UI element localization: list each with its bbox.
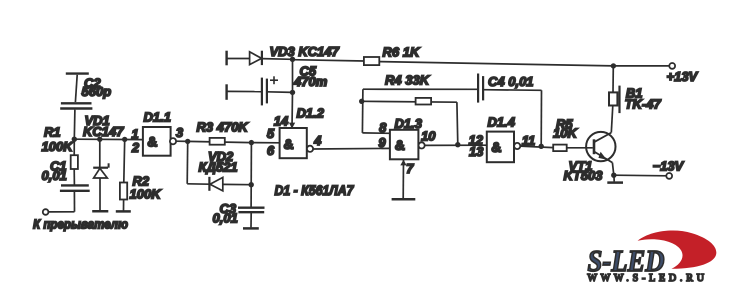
svg-text:R3 470K: R3 470K xyxy=(197,120,250,135)
svg-text:6: 6 xyxy=(267,143,275,158)
wire collector up to B1 xyxy=(611,106,613,133)
svg-text:&: & xyxy=(284,136,294,152)
svg-text:D1.2: D1.2 xyxy=(297,105,325,120)
svg-text:100K: 100K xyxy=(130,186,163,201)
node junction VD2/C3 xyxy=(249,182,254,187)
svg-text:100K: 100K xyxy=(42,139,75,154)
rail stub bar (VD3 anode) xyxy=(225,51,227,66)
node junction R2 xyxy=(122,137,127,142)
wire xyxy=(262,58,293,61)
transistor VT1 xyxy=(586,132,615,163)
wire R4 right vertical xyxy=(456,102,459,145)
svg-text:D1.1: D1.1 xyxy=(144,109,171,124)
terminal -13V xyxy=(666,173,672,179)
svg-text:&: & xyxy=(491,139,501,155)
logic gate D1.2 xyxy=(280,128,314,158)
node junction pin3 xyxy=(185,139,190,144)
svg-text:KT503: KT503 xyxy=(564,168,604,183)
resistor R6 xyxy=(364,57,379,65)
ground bar D1.3 pin7 xyxy=(392,198,416,201)
svg-text:TK-47: TK-47 xyxy=(625,96,662,111)
logic gate D1.4 xyxy=(487,132,521,163)
svg-text:2: 2 xyxy=(131,140,140,155)
capacitor C1 xyxy=(60,185,90,211)
svg-text:470m: 470m xyxy=(293,74,328,89)
svg-text:10: 10 xyxy=(421,129,436,144)
pin 7 arrowhead xyxy=(400,160,406,166)
wire R3 row xyxy=(188,141,252,142)
wire to ground bar xyxy=(613,175,615,181)
svg-text:R1: R1 xyxy=(44,125,61,140)
svg-text:−13V: −13V xyxy=(653,159,685,174)
svg-text:VD3 KC147: VD3 KC147 xyxy=(270,44,340,59)
zener diode VD1 xyxy=(93,139,108,210)
svg-text:1: 1 xyxy=(131,126,138,141)
svg-text:D1.4: D1.4 xyxy=(488,115,516,130)
resistor R1 xyxy=(71,139,78,184)
ground bar C3 xyxy=(243,227,259,230)
terminal +13V xyxy=(669,63,675,69)
capacitor C3 xyxy=(238,208,265,228)
svg-text:9: 9 xyxy=(378,135,386,150)
node junction R4 left xyxy=(359,99,364,104)
node junction VD1 xyxy=(97,137,102,142)
wire xyxy=(613,65,669,67)
capacitor C4 xyxy=(478,74,483,103)
svg-text:14: 14 xyxy=(274,113,289,128)
svg-text:KC147: KC147 xyxy=(83,124,124,139)
wire xyxy=(48,211,74,213)
svg-text:&: & xyxy=(147,134,157,150)
wire xyxy=(227,90,261,92)
capacitor C2 xyxy=(60,74,92,140)
wire D1.2 output to D1.3 pin 9 xyxy=(313,147,390,150)
wire xyxy=(227,58,250,60)
svg-text:R4 33K: R4 33K xyxy=(385,73,431,88)
wire pin 7 to ground xyxy=(402,159,404,198)
svg-text:13: 13 xyxy=(469,144,484,159)
svg-text:КД521: КД521 xyxy=(199,159,238,174)
node junction C5/pin14 xyxy=(290,90,295,95)
wire R4/C4 left vertical xyxy=(361,89,364,133)
wire D1.1 output xyxy=(176,140,188,142)
svg-text:&: & xyxy=(395,137,405,153)
svg-text:8: 8 xyxy=(379,120,387,135)
svg-text:D1.3: D1.3 xyxy=(395,116,423,131)
wire xyxy=(267,91,293,94)
wire emitter to -13V xyxy=(614,174,667,177)
svg-text:+13V: +13V xyxy=(667,69,699,84)
resistor R3 xyxy=(210,138,225,145)
wire C4 top row xyxy=(363,88,477,90)
logic gate D1.3 xyxy=(390,130,425,160)
svg-text:4: 4 xyxy=(313,133,322,148)
node junction R3/pins 5-6 xyxy=(249,140,254,145)
svg-text:5: 5 xyxy=(267,126,275,141)
wire D1.3 pin 8 xyxy=(362,132,390,134)
node junction R4 right / pin10 xyxy=(455,142,460,147)
node junction C4/pin11 xyxy=(539,144,544,149)
svg-text:R6 1K: R6 1K xyxy=(383,44,421,59)
resistor R2 xyxy=(120,139,127,210)
wire D1.4 output xyxy=(520,146,553,148)
terminal K preryvatelyu xyxy=(43,209,49,215)
component B1 (telephone capsule) xyxy=(609,66,620,113)
logo red swoosh xyxy=(638,231,717,269)
ground bar VD1 xyxy=(92,210,108,213)
node junction R1/C2 xyxy=(72,137,77,142)
wire xyxy=(379,62,613,66)
node junction emitter xyxy=(611,173,616,178)
diode VD2 loop xyxy=(187,141,251,191)
capacitor C5 xyxy=(262,76,278,105)
rail stub bar (C5 minus) xyxy=(225,84,227,100)
resistor R5 xyxy=(553,145,567,152)
wire emitter down xyxy=(612,163,613,176)
ground bar R2 xyxy=(116,210,131,213)
svg-text:0,01: 0,01 xyxy=(213,211,238,226)
resistor R4 xyxy=(416,98,432,105)
svg-text:7: 7 xyxy=(406,161,414,176)
svg-text:D1 - К561ЛА7: D1 - К561ЛА7 xyxy=(275,182,355,198)
wire D1.2 inputs xyxy=(251,142,279,144)
diode VD3 xyxy=(250,51,262,65)
ground bar emitter xyxy=(607,181,623,184)
node junction B1/+13V xyxy=(611,63,616,68)
pin 14 arrowhead xyxy=(289,123,295,129)
svg-text:C4 0,01: C4 0,01 xyxy=(488,74,534,89)
wire xyxy=(293,60,365,61)
svg-text:WWW.S-LED.RU: WWW.S-LED.RU xyxy=(588,273,708,284)
svg-text:0,01: 0,01 xyxy=(42,168,67,183)
wire R4 row xyxy=(362,100,457,103)
wire R5 to base xyxy=(567,147,593,149)
wire vertical pin5 node to C3 xyxy=(250,143,252,185)
svg-text:10K: 10K xyxy=(553,126,578,141)
svg-text:К прерывателю: К прерывателю xyxy=(33,217,128,232)
wire D1.3 output to D1.4 input xyxy=(425,144,487,146)
node junction VD3/C5 column xyxy=(290,57,295,62)
wire C4 right to pin 11 node xyxy=(483,89,541,92)
svg-text:560p: 560p xyxy=(82,84,112,99)
wire main input node xyxy=(74,138,143,140)
wire vertical VD3-C5-pin14 xyxy=(292,59,294,92)
svg-text:3: 3 xyxy=(176,125,184,140)
logic gate D1.1 xyxy=(143,127,176,156)
